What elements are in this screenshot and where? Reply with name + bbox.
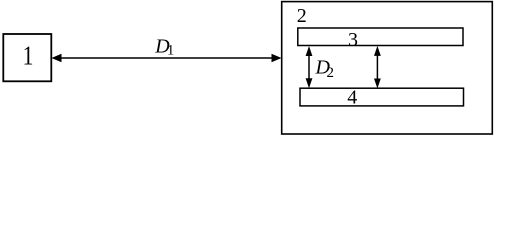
rect 4 bbox=[300, 88, 464, 106]
arrowhead left (points to box 1) bbox=[52, 54, 62, 62]
svg-text:4: 4 bbox=[347, 87, 357, 109]
label 3 bbox=[348, 29, 358, 51]
vertical double arrow right shaft bbox=[376, 53, 378, 81]
vertical double arrow left up head bbox=[306, 46, 313, 56]
vertical double arrow right up head bbox=[374, 46, 381, 56]
vertical double arrow left shaft bbox=[308, 53, 310, 81]
box 2 bbox=[282, 2, 493, 134]
svg-text:1: 1 bbox=[167, 43, 174, 59]
rect 3 bbox=[298, 28, 463, 46]
svg-text:2: 2 bbox=[327, 65, 335, 81]
svg-text:3: 3 bbox=[348, 29, 358, 51]
vertical double arrow left down head bbox=[306, 78, 313, 88]
vertical double arrow right down head bbox=[374, 79, 381, 89]
label 2 bbox=[297, 5, 307, 27]
label 1 bbox=[23, 41, 34, 71]
arrowhead right (points to box 2) bbox=[272, 54, 282, 62]
svg-text:1: 1 bbox=[23, 41, 34, 71]
label 4 bbox=[347, 87, 357, 109]
wire D1 shaft bbox=[59, 57, 274, 59]
box 1 bbox=[3, 34, 51, 81]
label D2 bbox=[315, 56, 335, 81]
svg-text:2: 2 bbox=[297, 5, 307, 27]
label D1 bbox=[154, 36, 174, 59]
